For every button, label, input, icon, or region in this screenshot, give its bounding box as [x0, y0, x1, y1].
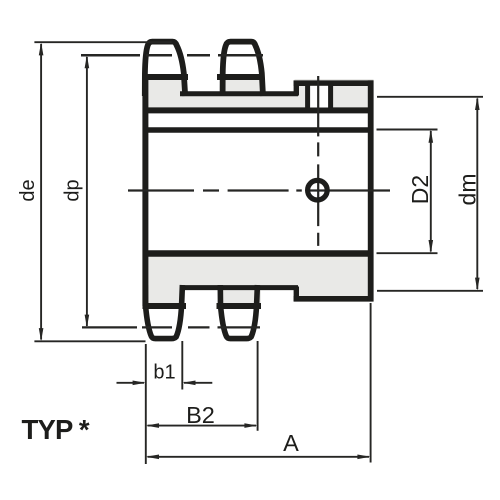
plate top line through top teeth	[143, 74, 265, 80]
bottom tooth 1 outline	[145, 285, 182, 339]
b1 right extension line	[181, 341, 183, 390]
A arrow left end	[146, 455, 159, 460]
dm dimension line	[476, 99, 478, 290]
dp dimension line	[86, 57, 88, 326]
de arrow up	[39, 42, 44, 55]
D2 arrow up	[429, 130, 434, 143]
svg-text:TYP *: TYP *	[22, 414, 90, 445]
sprocket body gray rim band bottom	[143, 254, 374, 306]
set screw slot right line	[328, 84, 333, 110]
body left edge	[142, 75, 148, 307]
b1 dimension line left part	[117, 382, 145, 384]
svg-text:A: A	[283, 430, 299, 456]
b1 arrow right-pointing	[133, 381, 146, 386]
de dimension line	[40, 44, 42, 340]
white pocket between/right of top teeth	[183, 70, 295, 91]
B2 dimension line	[148, 425, 257, 427]
pocket line bottom	[180, 285, 298, 290]
rim line top	[143, 107, 374, 113]
bottom tooth 1 fill	[143, 303, 183, 339]
B2 right extension line	[257, 341, 259, 431]
de top extension line	[34, 41, 171, 43]
bottom tooth 2 interior gray above plate line	[219, 287, 261, 303]
set screw slot white	[310, 86, 328, 108]
bottom tooth 2 fill	[218, 303, 258, 339]
hub step top vertical	[294, 81, 299, 96]
sprocket body gray rim band top	[143, 79, 374, 110]
body right edge (hub face)	[368, 80, 374, 301]
top tooth 1 fill	[143, 42, 186, 80]
center hole circle	[308, 180, 328, 200]
dp arrow down	[85, 315, 90, 328]
pocket line top	[180, 91, 298, 96]
D2 top extension line	[377, 129, 438, 131]
svg-text:dm: dm	[455, 174, 481, 206]
white below hub bottom line	[294, 301, 376, 313]
top pitch dashed line	[81, 54, 263, 57]
top tooth 1 outline	[145, 42, 185, 96]
top tooth 2 fill	[221, 42, 264, 80]
A arrow right end	[357, 455, 370, 460]
set screw slot left line	[305, 84, 310, 110]
bore/rim line bottom	[143, 250, 374, 256]
B2 arrow left end	[146, 423, 159, 428]
de arrow down	[39, 328, 44, 341]
B2 arrow right end	[244, 423, 257, 428]
svg-text:D2: D2	[407, 175, 433, 204]
dm top extension line	[377, 96, 483, 98]
bottom pitch dashed line	[82, 326, 260, 328]
bottom tooth 2 outline	[220, 285, 257, 339]
A right extension line	[370, 303, 372, 463]
white pocket between/right of bottom teeth	[183, 290, 295, 306]
dm bottom extension line	[377, 290, 483, 292]
top tooth 2 interior gray below plate line	[221, 79, 264, 92]
svg-text:b1: b1	[153, 361, 175, 383]
dm arrow down	[475, 278, 480, 291]
A dimension line	[148, 456, 370, 458]
hub top line	[294, 80, 374, 86]
horizontal centerline (dash-dot)	[128, 189, 390, 191]
b1 arrow left-pointing	[182, 381, 195, 386]
plate bottom line through bottom teeth	[143, 303, 262, 309]
D2 arrow down	[429, 240, 434, 253]
bore line top	[143, 127, 374, 133]
D2 dimension line	[430, 131, 432, 252]
hub bottom line	[294, 296, 374, 302]
svg-text:B2: B2	[186, 402, 215, 428]
D2 bottom extension line	[377, 252, 438, 254]
svg-text:dp: dp	[61, 179, 83, 201]
b1 left extension line (body edge extended)	[145, 344, 147, 464]
dm arrow up	[475, 97, 480, 110]
top tooth 2 outline	[223, 42, 263, 96]
svg-text:de: de	[17, 179, 39, 201]
b1 dimension line right part	[184, 382, 212, 384]
vertical centerline (dash-dot)	[317, 76, 319, 246]
de bottom extension line	[34, 340, 145, 342]
dp arrow up	[85, 55, 90, 68]
hub step bottom vertical	[294, 287, 299, 302]
